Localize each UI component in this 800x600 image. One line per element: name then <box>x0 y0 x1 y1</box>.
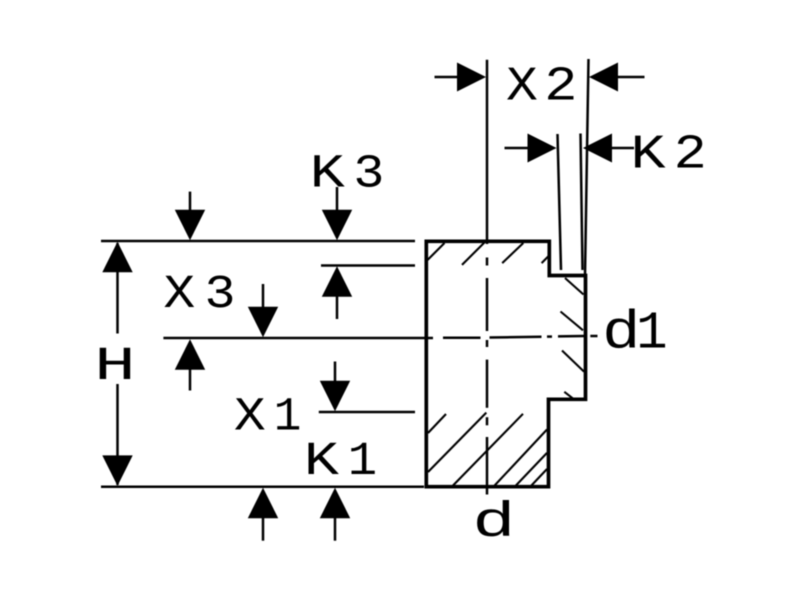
vertical centreline dash-dot through body <box>486 241 489 495</box>
K2 extension line right (slanted) <box>581 134 583 271</box>
hatch bottom band line 2 (long, left edge to centreline) <box>428 413 486 472</box>
hatch bottom band line 1 (short, from left edge) <box>428 414 446 433</box>
svg-text:X: X <box>506 60 538 114</box>
svg-text:d: d <box>472 495 515 551</box>
dimension line bottom (H/K1 lower reference) <box>101 485 424 488</box>
X2 dimension: left arrow pointing right at centreline <box>435 63 487 92</box>
K2 dimension: left arrow pointing right <box>505 134 557 163</box>
arrow K1 upper (down onto K1 line) <box>320 362 350 412</box>
hatch protrusion tick at lower step (backslash) <box>564 392 574 400</box>
svg-text:3: 3 <box>353 147 384 201</box>
dimension line K1 upper reference <box>319 411 415 414</box>
svg-text:d: d <box>602 303 640 364</box>
dimension line X3/d1 centre reference <box>163 337 433 340</box>
hatch bottom band line 4 (bottom edge to right edge) <box>495 430 547 486</box>
arrow X3 upper (down onto top line) <box>175 192 205 241</box>
hatch protrusion tick below d1 (backslash) <box>562 351 584 372</box>
dimension line H vertical lower segment <box>116 384 119 485</box>
X2 extension line right (slanted) <box>585 59 589 275</box>
hatch bottom band line 3 (long, bottom edge crossing centreline) <box>453 414 523 486</box>
hatch upper body tick 4 (to step edge) <box>542 256 549 263</box>
horizontal centreline dash-dot through body at d1 level <box>443 336 598 338</box>
K2 extension line left (slanted) <box>558 134 562 270</box>
body outline (tee-fitting cross-section) <box>426 241 585 486</box>
arrow X3 lower (up onto centre line) <box>175 339 205 390</box>
svg-text:K: K <box>310 147 345 201</box>
hatch upper body tick 2 <box>462 242 485 265</box>
X2 dimension: right arrow pointing left at extension line <box>589 63 645 92</box>
dimension line H vertical upper segment <box>116 243 119 334</box>
svg-text:K: K <box>631 128 667 183</box>
arrow X1 lower (up onto bottom line) <box>248 488 278 541</box>
hatch upper body tick 3 <box>502 243 523 263</box>
arrow K3 lower (up onto K3 line) <box>322 266 352 319</box>
svg-text:1: 1 <box>348 435 377 488</box>
svg-text:1: 1 <box>636 304 667 364</box>
dimension line K3 lower reference <box>321 264 415 267</box>
hatch upper body tick 1 (from left edge to top edge) <box>428 243 445 260</box>
hatch bottom band corner tick 6 <box>531 469 547 486</box>
svg-text:H: H <box>94 340 135 394</box>
hatch bottom band line 5 (bottom edge to right edge) <box>516 453 547 486</box>
arrowhead H top <box>102 242 132 272</box>
arrow K1 lower (up onto bottom line) <box>320 488 350 541</box>
arrow X1 upper (down onto centre line) <box>248 284 278 337</box>
svg-text:1: 1 <box>274 391 302 445</box>
svg-text:2: 2 <box>544 59 577 114</box>
arrow K3 upper (down onto top line) <box>322 187 352 240</box>
svg-text:K: K <box>304 435 339 489</box>
vertical centreline solid upper part (X2 left extension) <box>486 60 489 241</box>
svg-text:X: X <box>163 268 195 322</box>
hatch protrusion tick above d1 (backslash) <box>561 312 584 331</box>
svg-text:3: 3 <box>205 268 236 322</box>
dimension line top (H/K3 upper reference) <box>101 240 415 243</box>
arrowhead H bottom <box>102 455 132 486</box>
K2 dimension: right arrow pointing left <box>583 134 634 163</box>
hatch protrusion tick below step (backslash) <box>565 278 584 295</box>
svg-text:X: X <box>234 391 266 445</box>
svg-text:2: 2 <box>674 127 707 182</box>
